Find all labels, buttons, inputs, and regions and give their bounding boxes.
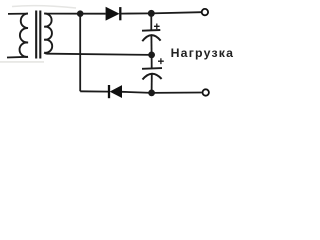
capacitor C1 top plate [142, 29, 160, 32]
svg-text:Нагрузка: Нагрузка [171, 46, 235, 60]
terminal top output (circle) [202, 9, 208, 15]
node B junction dot (top rail / C1) [148, 10, 155, 17]
diode VD2 (bottom) [110, 86, 121, 98]
capacitor C2 top plate [142, 67, 162, 70]
node C junction dot (capacitor midpoint) [148, 52, 155, 59]
node D junction dot (bottom rail / C2) [148, 90, 155, 97]
wire primary top lead [8, 13, 28, 15]
wire top rail from VD1 to node B [120, 12, 151, 14]
wire bottom rail to output terminal [152, 92, 202, 94]
scan smudge [0, 61, 44, 63]
diode VD1 cathode bar [119, 7, 121, 20]
transformer T1 primary winding [20, 14, 28, 57]
transformer T1 core [36, 11, 40, 59]
capacitor C2 curved plate [143, 74, 162, 80]
wire bottom rail left segment [80, 90, 108, 92]
wire secondary bottom lead to capacitor midpoint [44, 53, 151, 55]
diode VD1 (top, anode left) [106, 7, 119, 20]
node A junction dot (secondary top / vertical wire) [77, 10, 84, 17]
wire vertical from node A down to bottom rail [79, 14, 81, 92]
diode VD2 cathode bar (bottom, points left) [108, 85, 110, 98]
capacitor C1 curved plate [142, 35, 160, 41]
capacitor C1 lower lead [150, 35, 152, 55]
wire top rail to output terminal [151, 12, 201, 13]
wire secondary top lead / top rail [44, 13, 105, 15]
capacitor C2 plus sign [158, 58, 164, 64]
terminal bottom output (circle) [203, 89, 209, 95]
wire primary bottom lead [7, 56, 28, 59]
scan smudge top [12, 6, 76, 8]
transformer T1 secondary winding [44, 14, 52, 53]
capacitor C2 lower lead [151, 74, 153, 93]
capacitor C1 lead from node B [150, 13, 152, 30]
wire bottom rail from VD2 to node D [122, 92, 152, 93]
capacitor C1 plus sign [154, 24, 160, 30]
capacitor C2 lead from node C [151, 55, 153, 68]
